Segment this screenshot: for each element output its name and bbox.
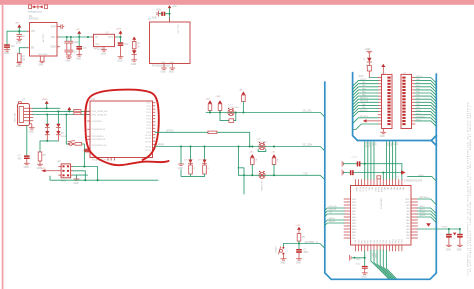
capacitor C10 tantalum series xyxy=(357,161,359,166)
rotated labels on bottom wires xyxy=(371,253,377,258)
svg-text:GND: GND xyxy=(66,61,71,63)
svg-text:STM32F072C8T6: STM32F072C8T6 xyxy=(404,181,423,183)
svg-text:ANT/REXT: ANT/REXT xyxy=(420,196,430,199)
wire labels header JP3 xyxy=(416,76,426,121)
svg-text:AP7361C: AP7361C xyxy=(42,33,45,42)
resistor R1 pulldown xyxy=(18,54,22,62)
resistor R14 xyxy=(377,176,381,179)
svg-text:SDA2: SDA2 xyxy=(374,253,377,258)
ground under S2 xyxy=(281,259,286,260)
svg-text:PIO13: PIO13 xyxy=(145,146,152,148)
svg-text:PA8: PA8 xyxy=(352,210,355,213)
wires MCU right pins to bus xyxy=(418,199,437,223)
svg-text:100n: 100n xyxy=(156,10,162,12)
IC2 left pin labels xyxy=(92,111,108,147)
resistor R9 pullup xyxy=(242,95,246,102)
wire VBUS xyxy=(33,104,60,108)
svg-text:PIO1/SWDCLK: PIO1/SWDCLK xyxy=(92,139,106,141)
capacitor C1 10u tantalum xyxy=(4,44,15,49)
svg-text:PB11: PB11 xyxy=(405,199,409,201)
svg-text:PA5: PA5 xyxy=(399,187,402,190)
svg-text:OUT: OUT xyxy=(51,37,56,39)
MCU right inside labels xyxy=(405,199,410,240)
svg-text:PB12: PB12 xyxy=(399,239,401,243)
wire SWDIO net xyxy=(73,167,98,181)
svg-text:PA3: PA3 xyxy=(392,187,395,190)
capacitor C12 tantalum xyxy=(446,234,452,236)
resistor R12 pullup xyxy=(272,158,276,165)
wire UART low net xyxy=(239,175,325,179)
svg-text:USB_DP: USB_DP xyxy=(329,209,337,211)
supply arrow on D- net xyxy=(67,107,71,110)
svg-text:VDDA: VDDA xyxy=(380,187,383,193)
svg-text:VSSA: VSSA xyxy=(377,187,380,193)
bus vertical left short xyxy=(353,73,358,141)
svg-text:VBUS: VBUS xyxy=(42,99,48,101)
svg-text:USB_DM: USB_DM xyxy=(329,206,337,208)
ground under module pin2 xyxy=(170,68,175,69)
ground left of C7 xyxy=(157,11,158,16)
connector X1 power jack xyxy=(28,3,48,14)
svg-text:PC8: PC8 xyxy=(383,240,385,244)
wire LPTXD xyxy=(155,132,250,146)
ESD diode D2 xyxy=(46,115,48,124)
svg-text:VIN: VIN xyxy=(31,31,35,33)
svg-text:GND: GND xyxy=(169,72,174,74)
wire Q2 gate loop xyxy=(258,149,266,152)
wire SWO net xyxy=(73,174,88,176)
IC2 left pin stubs xyxy=(88,111,91,139)
resistor R10 series xyxy=(208,131,217,133)
svg-text:THIS DRAWING IS THE PROPERTY O: THIS DRAWING IS THE PROPERTY OF THE AUTH… xyxy=(467,101,470,276)
svg-text:+3V3: +3V3 xyxy=(295,225,301,227)
svg-text:PA7/SDA: PA7/SDA xyxy=(360,100,369,103)
svg-text:+3V3: +3V3 xyxy=(116,29,122,31)
svg-text:PIO11: PIO11 xyxy=(145,138,151,140)
svg-text:PB11: PB11 xyxy=(396,239,398,243)
transistor Q1 mosfet xyxy=(228,108,234,116)
svg-text:MOSI2: MOSI2 xyxy=(420,212,426,214)
resistor R16 series button xyxy=(75,143,82,146)
svg-text:+3V3: +3V3 xyxy=(205,98,211,100)
svg-text:EN: EN xyxy=(31,48,35,50)
svg-text:PIO12: PIO12 xyxy=(145,141,152,143)
wire SWCLK net xyxy=(73,171,86,180)
bus vertical left long xyxy=(325,82,331,279)
capacitor C14 tantalum xyxy=(298,244,300,249)
svg-text:GND: GND xyxy=(4,53,9,55)
svg-text:GND: GND xyxy=(73,183,78,185)
ground under R1 xyxy=(17,63,22,64)
ground under header JP2 xyxy=(381,129,386,134)
svg-text:VIN: VIN xyxy=(15,22,19,24)
svg-text:VDDA: VDDA xyxy=(442,226,448,229)
ground under LED xyxy=(132,60,137,61)
bus horizontal mid xyxy=(358,136,437,146)
svg-text:+5V: +5V xyxy=(76,29,80,31)
svg-text:PB7: PB7 xyxy=(368,240,370,243)
svg-text:PC7: PC7 xyxy=(380,240,382,244)
svg-text:1k: 1k xyxy=(206,167,208,169)
IC2 right pin stubs xyxy=(153,103,156,148)
wire vertical join B C xyxy=(238,147,240,176)
svg-text:SCL2: SCL2 xyxy=(371,253,373,258)
header JP2 pin stubs xyxy=(378,78,382,125)
ground rotated g2 xyxy=(342,170,343,175)
svg-text:PA4: PA4 xyxy=(406,222,409,225)
svg-text:PA9: PA9 xyxy=(352,213,355,216)
svg-text:LPRXD: LPRXD xyxy=(157,145,165,147)
bus bottom horizontal xyxy=(331,273,436,279)
header JP3 pin stubs xyxy=(412,78,416,125)
resistor R13 xyxy=(367,66,371,72)
wire 5V rail IC1 OUT to U2 xyxy=(60,36,92,38)
wires header to MCU crossing bus group2 xyxy=(386,142,395,180)
wire EN net xyxy=(19,48,27,54)
wire I2C SCL upper xyxy=(206,113,325,117)
svg-text:PIO10: PIO10 xyxy=(145,135,152,137)
wires header to MCU crossing bus group1 xyxy=(365,142,374,180)
svg-text:PIO1/SWDIO: PIO1/SWDIO xyxy=(92,136,104,138)
svg-text:PA3: PA3 xyxy=(406,225,409,228)
svg-text:TX1: TX1 xyxy=(329,212,332,214)
capacitor C13 tantalum xyxy=(457,234,463,236)
svg-text:PB4: PB4 xyxy=(352,238,355,240)
svg-text:PA1: PA1 xyxy=(386,187,389,190)
svg-text:PF0: PF0 xyxy=(368,187,370,190)
ground rotated MCU bottom left xyxy=(350,255,351,260)
wire Q1 gate loop xyxy=(220,113,236,121)
svg-text:2N7002DW: 2N7002DW xyxy=(260,181,262,191)
svg-text:C? C?: C? C? xyxy=(352,157,359,159)
wire long net y180 xyxy=(50,176,158,180)
svg-text:GND: GND xyxy=(117,61,122,63)
svg-text:PC9: PC9 xyxy=(386,240,388,244)
resistor R3 series xyxy=(74,110,81,112)
svg-text:PWRJACKSLT: PWRJACKSLT xyxy=(28,10,43,13)
svg-text:SWD: SWD xyxy=(60,180,66,182)
transistor Q3 mosfet xyxy=(259,171,265,179)
wire dangling vertical x244 xyxy=(238,168,244,194)
svg-text:ADC1: ADC1 xyxy=(420,208,425,211)
wires MCU bottom pins to bus xyxy=(371,250,396,278)
ground under U2 xyxy=(101,50,106,51)
svg-text:PD2: PD2 xyxy=(389,240,391,244)
svg-text:PA6: PA6 xyxy=(402,187,405,190)
svg-text:74LVC1G05: 74LVC1G05 xyxy=(228,107,240,109)
wire UART mid net xyxy=(155,147,325,151)
frame copyright vertical text right margin xyxy=(467,101,473,276)
labels MCU right wires xyxy=(420,196,430,217)
supply VIN arrow xyxy=(17,24,21,27)
ground under C3 C4 xyxy=(66,57,71,58)
svg-text:PC6: PC6 xyxy=(377,240,379,244)
svg-text:GND: GND xyxy=(296,263,301,265)
svg-text:SCK: SCK xyxy=(359,76,364,78)
svg-text:TXD: TXD xyxy=(303,174,308,176)
IC1 pin stubs xyxy=(27,27,60,59)
svg-text:PIO0/RTS/TXD: PIO0/RTS/TXD xyxy=(92,129,106,131)
node RST flag xyxy=(84,149,90,153)
diode D10 tiny between caps xyxy=(453,233,456,236)
svg-text:ATGM336H-5N31: ATGM336H-5N31 xyxy=(152,65,171,68)
svg-text:AP7361C: AP7361C xyxy=(29,18,39,21)
svg-text:PA14: PA14 xyxy=(352,228,356,231)
resistor R4 series xyxy=(74,113,81,115)
svg-text:ADC0: ADC0 xyxy=(420,205,425,208)
supply +3V3 arrow header1 xyxy=(381,64,385,67)
pushbutton S2 reset xyxy=(274,244,285,259)
svg-text:GND: GND xyxy=(24,167,29,169)
svg-text:VDDIO: VDDIO xyxy=(360,79,367,81)
MCU top inside labels xyxy=(355,187,405,193)
svg-text:GND: GND xyxy=(365,49,370,51)
supply +3V3 arrow pullup a1 xyxy=(208,100,212,103)
svg-text:PIO0_6/USB_DP: PIO0_6/USB_DP xyxy=(92,114,108,116)
capacitor C11 tantalum series xyxy=(350,170,352,175)
svg-text:PB5: PB5 xyxy=(361,240,363,243)
svg-text:GND: GND xyxy=(280,263,285,265)
LED D6 with resistor xyxy=(190,147,192,160)
wire 3V3 rail U2 OUT xyxy=(117,37,121,42)
wire MCU pin to C15 xyxy=(364,251,366,266)
frame top band xyxy=(0,0,474,5)
ESD diode D3 xyxy=(45,131,49,135)
svg-text:I2C_SDA: I2C_SDA xyxy=(303,144,313,147)
svg-text:RESET: RESET xyxy=(274,247,276,254)
resistor R5 xyxy=(38,152,42,161)
MCU bottom inside labels xyxy=(355,239,404,243)
svg-text:+3V: +3V xyxy=(249,152,253,154)
supply VBUS arrow xyxy=(45,101,49,104)
svg-text:PA0: PA0 xyxy=(383,187,386,190)
svg-text:PA6/SCL: PA6/SCL xyxy=(360,97,369,100)
wire AREF to bus xyxy=(408,177,437,181)
svg-text:DO NOT SCALE DRAWING - CONFIDE: DO NOT SCALE DRAWING - CONFIDENTIAL - SH… xyxy=(469,105,472,272)
svg-text:VBUS3: VBUS3 xyxy=(416,76,423,78)
svg-text:OUT: OUT xyxy=(108,37,113,39)
capacitor C15 tantalum horizontal xyxy=(362,266,368,267)
labels bus to MCU wires xyxy=(329,206,337,223)
resistor R6 pullup xyxy=(208,104,212,111)
svg-text:MINI-USB: MINI-USB xyxy=(15,112,17,122)
wires header JP3 to bus xyxy=(415,78,436,127)
svg-text:PB14: PB14 xyxy=(352,205,356,207)
ground under C13 xyxy=(457,245,462,246)
svg-text:1k: 1k xyxy=(192,167,194,169)
svg-text:GND: GND xyxy=(50,47,55,49)
capacitor C BYP xyxy=(60,25,64,29)
svg-text:GND: GND xyxy=(457,249,462,251)
svg-text:+3V: +3V xyxy=(239,89,243,91)
svg-text:GND: GND xyxy=(38,65,43,67)
capacitor C3 100n xyxy=(66,37,68,41)
svg-text:I2C_SCL: I2C_SCL xyxy=(303,111,313,113)
svg-text:SWCLK: SWCLK xyxy=(329,221,336,223)
svg-text:PC14: PC14 xyxy=(361,187,363,192)
ground under C2 xyxy=(17,39,22,40)
svg-text:GND/RST: GND/RST xyxy=(416,116,426,118)
svg-text:PB13: PB13 xyxy=(402,239,404,243)
svg-text:+3V3: +3V3 xyxy=(215,96,221,98)
svg-text:GND: GND xyxy=(380,136,385,138)
MCU right pin stubs xyxy=(411,199,418,238)
svg-text:SWDIO: SWDIO xyxy=(329,218,336,220)
svg-text:PA5: PA5 xyxy=(406,219,409,222)
ground under C8 xyxy=(24,163,29,164)
svg-text:GND: GND xyxy=(362,277,367,279)
svg-text:GND: GND xyxy=(76,59,81,61)
MCU bottom pin stubs xyxy=(355,245,402,251)
IC1 regulator body xyxy=(30,23,58,57)
ESD diode D5 xyxy=(56,131,60,135)
node arrow left of header row2 xyxy=(41,169,45,172)
connector pin stubs xyxy=(30,108,34,127)
capacitor C5 10u tantalum xyxy=(76,46,87,54)
wire GND stub drop xyxy=(181,147,205,177)
wire VDDA to caps xyxy=(418,229,460,234)
bus vertical right xyxy=(435,74,437,273)
rotated net labels on verticals xyxy=(365,143,398,148)
svg-text:GND: GND xyxy=(161,62,166,64)
svg-text:BYP: BYP xyxy=(51,27,56,29)
svg-text:IN: IN xyxy=(95,37,98,39)
svg-text:PB6: PB6 xyxy=(365,240,367,243)
svg-text:GND: GND xyxy=(131,64,136,66)
svg-text:GND: GND xyxy=(101,54,106,56)
svg-text:PA1: PA1 xyxy=(406,231,409,234)
node arrow on lower JP2 wire xyxy=(363,119,367,122)
svg-text:GND: GND xyxy=(446,249,451,251)
svg-text:MOSI: MOSI xyxy=(365,143,367,148)
svg-text:PB15: PB15 xyxy=(352,208,356,210)
svg-text:GND: GND xyxy=(16,42,21,44)
MCU top pin stubs xyxy=(355,180,402,186)
module pin stubs xyxy=(164,17,172,67)
wire D+ to button xyxy=(65,115,67,145)
reset switch cluster : supply arrow xyxy=(297,227,301,230)
svg-text:GND: GND xyxy=(169,62,174,64)
svg-text:PA15: PA15 xyxy=(352,231,356,234)
ground under header right xyxy=(76,175,78,179)
svg-text:SRV05: SRV05 xyxy=(61,136,68,138)
svg-text:100n: 100n xyxy=(356,263,360,265)
svg-text:100n: 100n xyxy=(74,42,80,44)
svg-text:PB2: PB2 xyxy=(406,205,409,207)
svg-text:PB12: PB12 xyxy=(352,199,356,201)
svg-text:PB1: PB1 xyxy=(406,208,409,210)
ground under module pin1 xyxy=(161,68,166,69)
svg-text:PF1: PF1 xyxy=(371,187,373,190)
svg-text:PB10: PB10 xyxy=(405,202,409,204)
capacitor C2 1u xyxy=(17,34,22,38)
node VREF arrow right xyxy=(401,170,406,174)
svg-text:PIO1/SWDIOTG: PIO1/SWDIOTG xyxy=(92,145,107,147)
MCU IC3 body xyxy=(351,186,412,246)
ground under C12 xyxy=(446,245,451,246)
ground under C6 xyxy=(118,57,123,58)
ground under R5 xyxy=(37,161,42,166)
ground rotated g1 xyxy=(342,161,343,166)
resistor R7 pullup xyxy=(218,104,222,111)
capacitor C6 10u tantalum xyxy=(118,42,129,56)
diode D9 small xyxy=(426,223,431,227)
svg-text:AREF: AREF xyxy=(419,174,425,177)
ground under C5 xyxy=(77,55,82,56)
capacitor C4b 1u xyxy=(69,50,73,57)
svg-text:PA13: PA13 xyxy=(352,225,356,228)
svg-text:PA0: PA0 xyxy=(406,234,409,237)
svg-text:GND: GND xyxy=(178,168,183,170)
wire GPS VCC xyxy=(169,8,171,22)
svg-text:PB0: PB0 xyxy=(406,211,409,213)
svg-text:GND: GND xyxy=(29,132,34,134)
supply +3V3 arrow GPS xyxy=(168,5,172,8)
transistor Q2 mosfet xyxy=(259,142,265,149)
svg-text:PA4: PA4 xyxy=(396,187,399,190)
wires header JP2 to bus xyxy=(353,81,378,130)
svg-text:GND: GND xyxy=(152,18,157,20)
ground under C14 xyxy=(296,259,301,260)
IC2 bottom pin stubs xyxy=(108,158,114,161)
svg-text:PA2: PA2 xyxy=(406,228,409,231)
svg-text:PB13: PB13 xyxy=(352,202,356,204)
svg-text:PA7: PA7 xyxy=(406,213,409,216)
svg-text:VCC_3V3: VCC_3V3 xyxy=(177,25,179,35)
svg-text:PB8: PB8 xyxy=(371,240,373,243)
wire led to header pin1 xyxy=(369,77,378,79)
ground under C1 xyxy=(4,50,9,51)
svg-text:PIO14: PIO14 xyxy=(145,150,152,152)
svg-text:MISO2: MISO2 xyxy=(420,215,426,217)
resistor R15 pullup xyxy=(298,230,300,234)
LED D8 xyxy=(367,58,372,62)
wire USB D+ xyxy=(33,114,90,116)
frame left border line xyxy=(2,5,4,289)
capacitor C8 4u7 tantalum xyxy=(18,155,30,163)
svg-text:PA12: PA12 xyxy=(352,222,356,225)
svg-text:PB9: PB9 xyxy=(374,240,376,243)
power LED chain: resistor R2 xyxy=(132,37,136,40)
svg-text:ANT/RST_N: ANT/RST_N xyxy=(305,241,318,244)
svg-text:+3V: +3V xyxy=(271,152,275,154)
wire RESET net xyxy=(283,244,324,249)
wire ESD to ground rail xyxy=(40,141,58,152)
svg-text:LPTXD: LPTXD xyxy=(166,131,174,133)
supply +3V3 arrow at C5 xyxy=(77,31,81,34)
wire USB D- xyxy=(33,110,90,112)
MCU left pin stubs xyxy=(344,199,351,238)
resistor R11 pullup xyxy=(251,158,255,165)
svg-text:1M: 1M xyxy=(22,59,25,61)
svg-text:PIO0_3/USB_DM: PIO0_3/USB_DM xyxy=(92,111,108,113)
svg-text:GND: GND xyxy=(356,259,361,261)
wire VBUS cap drop xyxy=(26,126,28,156)
LED D7 with resistor xyxy=(204,147,206,160)
svg-text:PC13: PC13 xyxy=(358,187,360,192)
svg-text:GND: GND xyxy=(95,44,100,46)
ground under C15 xyxy=(362,273,367,274)
svg-text:GND: GND xyxy=(161,72,166,74)
annotation red scribble circle around IC2 xyxy=(85,90,168,166)
U2 pin stubs xyxy=(92,37,117,49)
svg-text:PB10: PB10 xyxy=(392,239,394,243)
ground usb shield xyxy=(29,128,34,129)
svg-text:GND GND: GND GND xyxy=(38,54,48,56)
supply +3V3 arrow xyxy=(119,31,123,34)
svg-text:MISO: MISO xyxy=(368,143,370,148)
capacitor C3b 100n xyxy=(70,37,72,41)
